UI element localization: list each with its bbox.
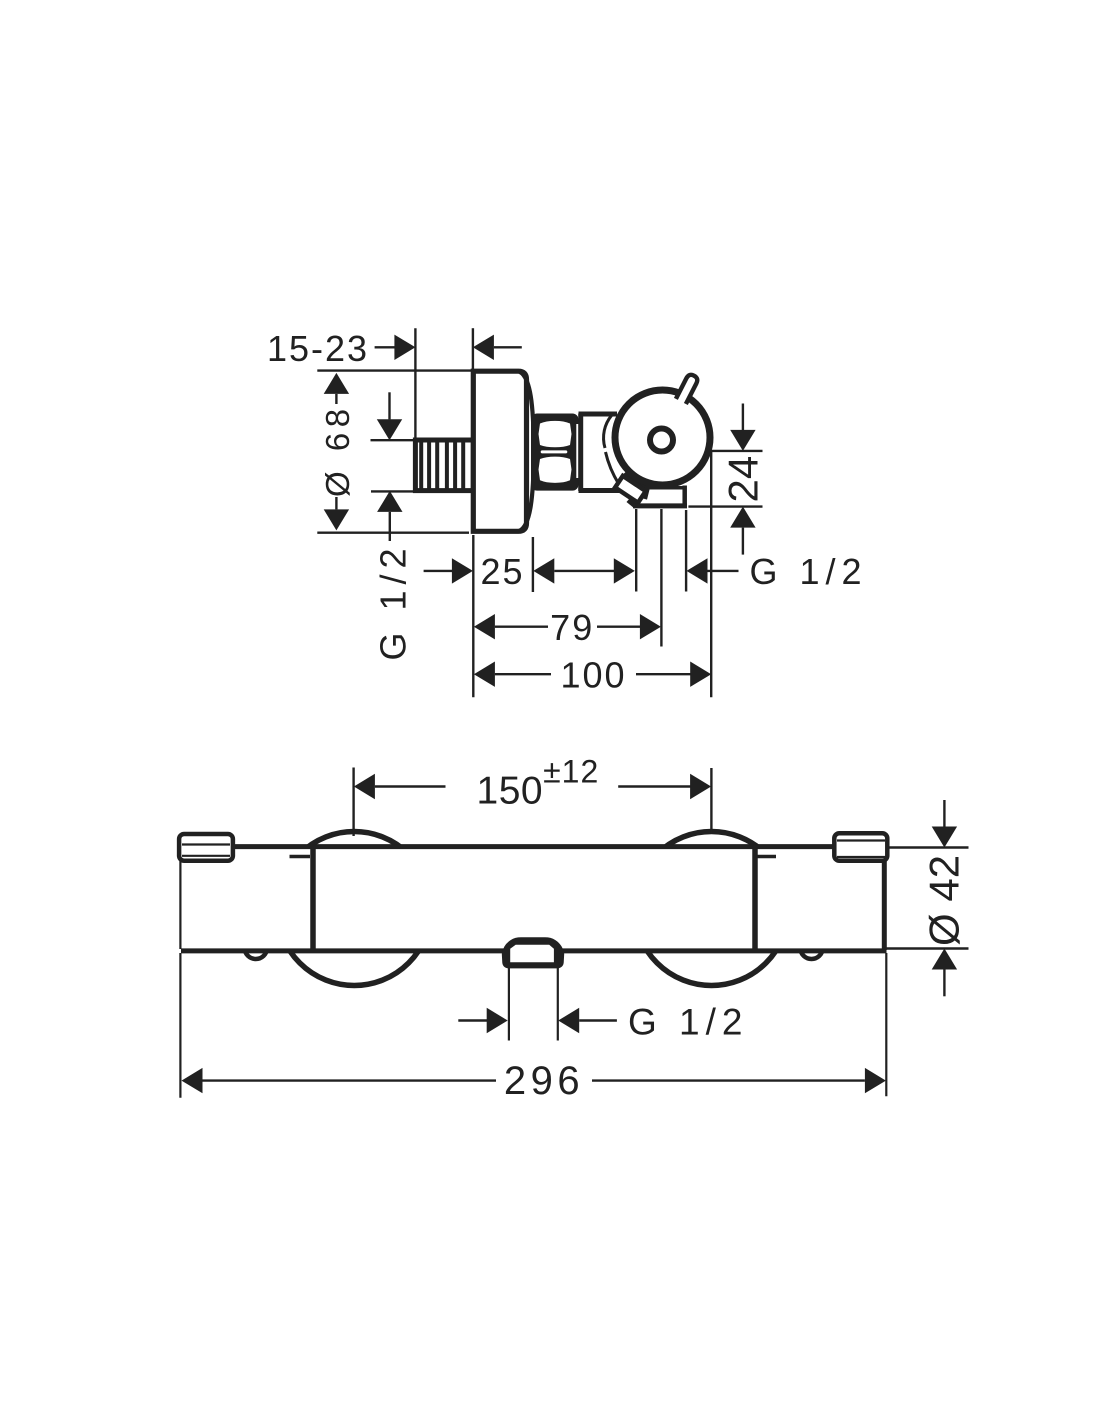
bracket white channel	[615, 476, 646, 503]
dimension 79	[474, 607, 661, 648]
end cap right	[834, 833, 887, 861]
dimension Ø42 bottom arrow (pointing up)	[932, 949, 957, 997]
extension line: inlet axis (24 top)	[709, 450, 763, 452]
svg-text:15-23: 15-23	[267, 328, 369, 369]
svg-text:G 1/2: G 1/2	[628, 1002, 749, 1043]
escutcheon wall plate	[473, 371, 533, 531]
dimension 150±12	[354, 754, 711, 813]
extension line: escutcheon bottom extended left	[317, 532, 469, 534]
body/union joint line left	[310, 848, 316, 950]
svg-text:Ø 42: Ø 42	[921, 855, 968, 946]
svg-text:G 1/2: G 1/2	[373, 542, 414, 660]
leader arrow to nipple bottom (pointing up)	[377, 491, 402, 541]
valve body bottom edge	[579, 488, 625, 493]
svg-text:296: 296	[504, 1059, 584, 1103]
valve body contour curves	[604, 416, 612, 449]
dimension 15-23 right arrow	[473, 335, 522, 360]
screw boss left	[245, 938, 267, 959]
outlet boss (dark body)	[502, 937, 564, 968]
extension line: body bottom extended right (Ø42)	[884, 947, 969, 949]
dimension 25	[424, 558, 473, 583]
body edge dash left	[290, 855, 311, 859]
valve body top edge	[579, 412, 618, 417]
mixer body left edge	[179, 858, 181, 949]
extension line B: escutcheon right edge down	[532, 537, 534, 592]
mounting foot dark wedge (behind bracket channel)	[616, 468, 652, 499]
extension line: nipple bottom extended left	[371, 490, 415, 492]
dimension 24 bottom arrow (pointing up)	[730, 507, 755, 555]
svg-text:25: 25	[480, 551, 524, 592]
mixer body bottom edge	[181, 948, 887, 953]
dimension G 1/2 bottom arrows	[458, 1008, 617, 1033]
svg-text:24: 24	[720, 456, 767, 503]
threaded nipple body	[415, 440, 473, 491]
extension line: nipple left end (vertical)	[414, 328, 416, 440]
extension line: body top extended right (Ø42)	[888, 846, 969, 848]
extension line: body left edge down (296)	[179, 953, 181, 1098]
extension line E: foot right edge down	[685, 510, 687, 592]
dimension 100	[474, 655, 711, 696]
extension line: foot bottom extended right (24 bottom)	[688, 505, 762, 507]
bracket elbow corner	[627, 498, 642, 509]
extension line: right union centre up	[710, 768, 712, 833]
svg-text:G 1/2: G 1/2	[750, 551, 868, 592]
extension line: nipple top extended left	[371, 439, 416, 441]
body edge dash right	[758, 855, 777, 859]
leader arrow to nipple top (pointing down)	[377, 392, 402, 440]
extension line A: wall plane down (vertical)	[472, 535, 474, 697]
handle hub (small circle)	[650, 429, 673, 452]
dimension 15-23 left arrow	[375, 335, 416, 360]
mixer body right edge	[882, 858, 887, 950]
valve body left edge	[578, 414, 583, 492]
hex union nut	[531, 414, 580, 491]
dimension 296	[182, 1059, 886, 1103]
end cap left	[179, 834, 233, 861]
extension line: wall plane / escutcheon left edge (vertical)	[472, 328, 474, 369]
extension line: outlet left edge down	[508, 968, 510, 1041]
mixer body top edge	[233, 844, 835, 849]
body/union joint line right	[752, 848, 758, 950]
dimension Ø68 top arrow (pointing up)	[324, 373, 349, 404]
extension line: left union centre up	[352, 768, 354, 837]
dimension 24 top arrow (pointing down)	[730, 404, 755, 451]
extension line F: knob right tangent down	[710, 451, 712, 697]
dimension Ø68 bottom arrow (pointing down)	[324, 497, 349, 530]
union nut circle left	[277, 832, 431, 986]
svg-text:100: 100	[560, 655, 626, 696]
G 1/2 right callout arrow (pointing left at foot)	[687, 558, 739, 583]
dimension Ø42 top arrow (pointing down)	[932, 800, 957, 848]
svg-text:79: 79	[550, 607, 594, 648]
mixer body fill (masks circles)	[182, 849, 885, 949]
mounting foot	[633, 486, 687, 508]
extension line: body right edge down (296)	[885, 953, 887, 1096]
screw boss right	[801, 938, 823, 959]
extension line: escutcheon top extended left	[317, 369, 471, 371]
union nut circle right	[635, 832, 789, 986]
extension line: outlet right edge down	[557, 968, 559, 1041]
extension line D: knob axis down	[660, 509, 662, 647]
extension line C: foot left edge down	[635, 509, 637, 592]
handle lever stub	[676, 373, 699, 404]
thermostat handle knob (circle)	[615, 390, 710, 485]
svg-text:Ø 68: Ø 68	[319, 403, 356, 497]
outlet window (white)	[510, 945, 554, 963]
